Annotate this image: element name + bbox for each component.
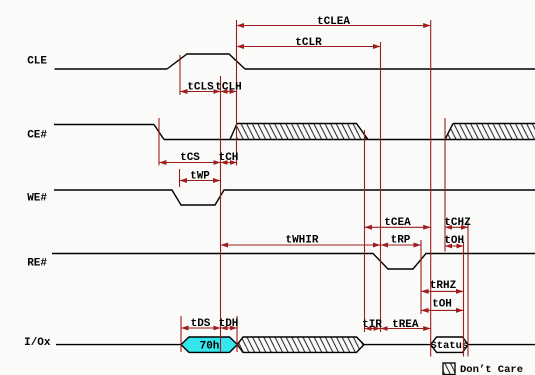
CE# rising edge 2 (445, 124, 453, 140)
arrowheads tCEA (365, 225, 373, 230)
wire CE# low (164, 139, 535, 141)
arrowheads tOH bottom (421, 308, 429, 313)
extension line CE low mid (364, 130, 366, 332)
svg-text:tCLS: tCLS (187, 82, 214, 94)
svg-text:tCLEA: tCLEA (317, 16, 350, 28)
wire CE# high left (54, 124, 154, 126)
CLE pulse high (167, 54, 245, 69)
CE# falling edge (154, 125, 164, 140)
arrowheads tWP (180, 178, 188, 183)
arrowheads tCLR (237, 44, 245, 49)
svg-text:tCLH: tCLH (215, 82, 241, 94)
svg-text:Don’t Care: Don’t Care (460, 364, 523, 375)
extension line tWP left (179, 169, 181, 187)
svg-text:tOH: tOH (444, 235, 464, 247)
dimension arrows (159, 26, 468, 329)
arrowheads tCS tCH (159, 160, 167, 165)
svg-text:WE#: WE# (27, 193, 47, 205)
I/O command hexagon 70h (181, 337, 237, 352)
arrowheads tIR tREA (365, 326, 372, 331)
svg-text:tRHZ: tRHZ (430, 280, 457, 292)
wire RE# waveform (52, 254, 535, 270)
svg-text:tRP: tRP (391, 235, 411, 247)
I/O dont-care band (237, 337, 364, 352)
wire CLE low right (245, 68, 535, 70)
extension line tDH right (236, 316, 238, 352)
svg-text:tDH: tDH (219, 318, 239, 330)
svg-text:RE#: RE# (27, 258, 47, 270)
svg-text:tDS: tDS (191, 318, 211, 330)
svg-text:tREA: tREA (392, 319, 419, 331)
svg-text:CE#: CE# (27, 130, 47, 142)
svg-text:I/Ox: I/Ox (24, 337, 51, 349)
svg-text:CLE: CLE (27, 55, 47, 67)
svg-text:tIR: tIR (362, 319, 382, 331)
wire I/O left (56, 344, 181, 346)
extension line data valid (430, 20, 432, 357)
arrowheads tCLS tCLH (180, 89, 188, 94)
dimension extension lines (red) (159, 20, 468, 357)
extension line RE rising (420, 240, 422, 314)
svg-text:tCS: tCS (180, 152, 200, 164)
extension line CE rising 2 (444, 118, 446, 252)
arrowheads tCHZ (445, 225, 452, 230)
arrowheads tOH top (445, 244, 452, 249)
svg-text:tWHIR: tWHIR (285, 235, 318, 247)
CE# dont-care band 1 (237, 124, 368, 140)
arrowheads tRHZ (421, 289, 429, 294)
wire I/O middle (364, 344, 431, 346)
svg-text:tCH: tCH (219, 152, 239, 164)
wire I/O right (468, 344, 535, 346)
extension line output hold (463, 242, 465, 357)
svg-text:tCLR: tCLR (295, 37, 322, 49)
extension line RE falling (380, 42, 382, 332)
arrowheads tWHIR tRP (221, 243, 229, 248)
extension line status end (467, 222, 469, 357)
svg-text:tWP: tWP (190, 171, 210, 183)
CE# rising edge 1 (230, 124, 237, 140)
extension line WE rising center (220, 76, 222, 352)
extension line tDS left (180, 316, 182, 352)
I/O output hexagon Status (431, 337, 468, 352)
svg-text:Status: Status (430, 340, 468, 352)
svg-text:70h: 70h (200, 340, 220, 352)
arrowheads tCLEA (237, 23, 245, 28)
wire WE# waveform (54, 190, 535, 205)
svg-text:tCEA: tCEA (384, 217, 411, 229)
extension line CLE fall / CE rise (236, 20, 238, 166)
extension line tCLS left (179, 55, 181, 95)
svg-text:tOH: tOH (432, 299, 452, 311)
extension line tCS left (158, 118, 160, 166)
arrowheads tDS tDH (181, 326, 189, 331)
wire CLE low left (55, 68, 168, 70)
CE# dont-care band 2 (445, 124, 535, 140)
legend dont-care swatch (443, 363, 455, 375)
svg-text:tCHZ: tCHZ (444, 217, 471, 229)
